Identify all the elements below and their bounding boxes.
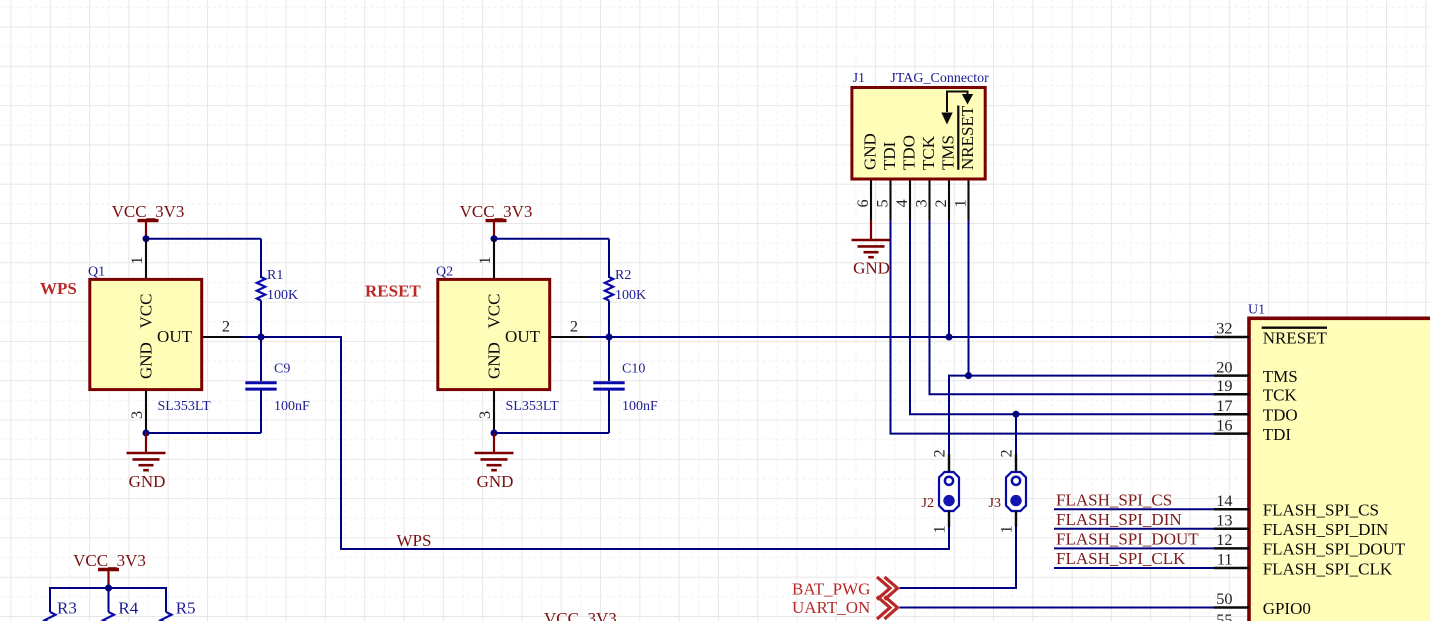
power flag VCC_3V3 (Q2 circuit) — [460, 202, 533, 238]
pin name NRESET inside U1 — [1262, 328, 1328, 348]
pin 20 of U1 (TMS) — [1214, 357, 1249, 376]
wire TMS net: J2 pin 2 up and right to U1 pin 20 — [949, 376, 1214, 460]
wire R2 bottom lead — [608, 301, 610, 338]
power flag VCC_3V3 (Q1 circuit) — [112, 202, 185, 238]
svg-text:C9: C9 — [274, 362, 290, 377]
wire BAT_PWG to J3 pin 1 — [900, 527, 1016, 588]
svg-text:FLASH_SPI_DIN: FLASH_SPI_DIN — [1056, 510, 1182, 529]
svg-text:GND: GND — [485, 342, 504, 379]
resistor R3 (top, cut off) — [45, 612, 56, 626]
wire R1 bottom lead — [260, 301, 262, 338]
svg-text:U1: U1 — [1248, 302, 1265, 317]
harness chevron BAT_PWG — [877, 577, 898, 600]
transistor Q2 body (hall sensor SL353LT) — [438, 279, 550, 389]
pin 2 (OUT) of Q2 — [551, 317, 590, 337]
pin 1 of J2 — [930, 511, 949, 534]
svg-text:VCC_3V3: VCC_3V3 — [460, 202, 533, 221]
wire FLASH_SPI_DOUT net — [1054, 547, 1214, 549]
svg-text:TDI: TDI — [1263, 425, 1292, 444]
svg-text:Q1: Q1 — [88, 265, 105, 280]
svg-text:FLASH_SPI_CS: FLASH_SPI_CS — [1263, 501, 1379, 520]
wire R4 top lead — [108, 588, 110, 612]
svg-text:4: 4 — [892, 199, 911, 207]
svg-text:BAT_PWG: BAT_PWG — [792, 580, 870, 599]
power flag VCC_3V3 (R3/R4/R5) — [73, 551, 146, 588]
svg-text:VCC: VCC — [485, 294, 504, 329]
svg-text:R3: R3 — [57, 598, 77, 617]
node junction J3 pin2 on TDO wire — [1013, 411, 1020, 418]
wire UART_ON to U1 pin 50 — [900, 607, 1214, 609]
pin 2 of J3 — [997, 449, 1016, 472]
wire FLASH_SPI_CS net — [1054, 508, 1214, 510]
pin 11 of U1 (FLASH_SPI_CLK) — [1214, 550, 1249, 569]
svg-text:GND: GND — [853, 258, 890, 277]
wire WPS net: Q1 OUT down and across to J2 pin 1 — [261, 337, 949, 549]
svg-text:TMS: TMS — [939, 135, 958, 170]
svg-text:OUT: OUT — [157, 327, 193, 346]
resistor R4 (top, cut off) — [103, 612, 114, 626]
svg-text:16: 16 — [1216, 415, 1232, 434]
pin 3 of J1 (TCK) — [912, 181, 931, 221]
capacitor C9 — [245, 337, 276, 433]
pin 5 of J1 (TDI) — [873, 181, 892, 221]
svg-text:100K: 100K — [615, 288, 646, 303]
svg-text:SL353LT: SL353LT — [158, 399, 212, 414]
svg-text:GND: GND — [861, 133, 880, 170]
pin 1 of Q2 — [475, 239, 494, 279]
svg-text:20: 20 — [1216, 357, 1232, 376]
svg-text:R5: R5 — [176, 598, 196, 617]
ground Q1 — [127, 433, 166, 470]
wire R1 top lead — [260, 239, 262, 278]
pin 3 of Q1 — [127, 391, 146, 434]
wire TCK: J1 pin 3 to U1 pin 19 — [930, 220, 1215, 394]
node OUT junction Q1 — [258, 334, 265, 341]
wire FLASH_SPI_DIN net — [1054, 528, 1214, 530]
harness chevron UART_ON — [877, 596, 898, 619]
jumper J2 body — [939, 472, 959, 511]
IC U1 body — [1249, 318, 1430, 626]
swap-indicator arrow bracket (TMS/NRESET) — [941, 92, 973, 125]
svg-text:OUT: OUT — [505, 327, 541, 346]
svg-text:R1: R1 — [267, 268, 283, 283]
svg-text:17: 17 — [1216, 396, 1232, 415]
svg-text:TCK: TCK — [919, 135, 938, 170]
svg-text:6: 6 — [853, 199, 872, 207]
svg-text:NRESET: NRESET — [958, 105, 977, 170]
svg-text:Q2: Q2 — [436, 265, 453, 280]
svg-text:TDO: TDO — [900, 135, 919, 170]
pin 50 of U1 (GPIO0) — [1214, 589, 1249, 608]
wire OUT of Q2 to R2 — [590, 336, 609, 338]
resistor R1 — [257, 277, 265, 301]
jumper J3 body — [1006, 472, 1026, 511]
wire OUT of Q1 to R1 — [242, 336, 261, 338]
wire R2 top lead — [608, 239, 610, 278]
svg-text:J3: J3 — [989, 496, 1001, 511]
pin 6 of J1 (GND) — [853, 181, 872, 221]
wire J3 pin2 up to TDO wire — [1015, 414, 1017, 454]
svg-text:JTAG_Connector: JTAG_Connector — [890, 71, 989, 86]
pin 14 of U1 (FLASH_SPI_CS) — [1214, 491, 1249, 510]
pin 2 of J2 — [930, 449, 949, 472]
svg-text:14: 14 — [1216, 491, 1232, 510]
svg-text:2: 2 — [930, 449, 949, 457]
node VCC junction Q1 — [143, 235, 150, 242]
pin 3 of Q2 — [475, 391, 494, 434]
wire FLASH_SPI_CLK net — [1054, 567, 1214, 569]
wire J1 NRESET pin down crossing to TMS net junction — [968, 220, 970, 376]
svg-text:RESET: RESET — [365, 282, 421, 301]
transistor Q1 body (hall sensor SL353LT) — [90, 279, 202, 389]
svg-text:55: 55 — [1216, 610, 1232, 621]
capacitor C10 — [593, 337, 624, 433]
svg-text:SL353LT: SL353LT — [506, 399, 560, 414]
svg-text:R2: R2 — [615, 268, 631, 283]
wire VCC rail to R1 — [146, 238, 261, 240]
svg-text:1: 1 — [930, 525, 949, 533]
ground Q2 — [475, 433, 514, 470]
svg-text:TDI: TDI — [880, 141, 899, 170]
svg-text:100nF: 100nF — [622, 399, 658, 414]
svg-text:FLASH_SPI_CLK: FLASH_SPI_CLK — [1263, 559, 1393, 578]
svg-text:FLASH_SPI_DOUT: FLASH_SPI_DOUT — [1056, 530, 1199, 549]
svg-text:1: 1 — [127, 256, 146, 264]
connector J1 body — [852, 88, 985, 180]
svg-text:R4: R4 — [118, 598, 138, 617]
node OUT junction Q2 — [606, 334, 613, 341]
ground J1 — [852, 220, 891, 257]
svg-text:J2: J2 — [922, 496, 934, 511]
svg-text:13: 13 — [1216, 511, 1232, 530]
svg-text:50: 50 — [1216, 589, 1232, 608]
svg-text:TCK: TCK — [1263, 386, 1298, 405]
svg-text:TDO: TDO — [1263, 406, 1298, 425]
resistor R5 (top, cut off) — [161, 612, 172, 626]
svg-text:100K: 100K — [267, 288, 298, 303]
svg-text:2: 2 — [931, 199, 950, 207]
svg-text:GND: GND — [137, 342, 156, 379]
svg-text:UART_ON: UART_ON — [792, 598, 870, 617]
svg-text:12: 12 — [1216, 530, 1232, 549]
node junction J1-TMS column on NRESET wire — [946, 334, 953, 341]
svg-text:VCC_3V3: VCC_3V3 — [112, 202, 185, 221]
svg-text:VCC_3V3: VCC_3V3 — [544, 609, 617, 621]
svg-text:GND: GND — [129, 472, 166, 491]
wire TDI: J1 pin 5 to U1 pin 16 — [891, 220, 1215, 434]
pin 2 of J1 (TMS) — [931, 181, 950, 221]
svg-text:FLASH_SPI_DIN: FLASH_SPI_DIN — [1263, 520, 1389, 539]
node VCC junction (divider) — [105, 585, 112, 592]
node GND junction Q2 — [491, 430, 498, 437]
wire GND rail Q1 to C9 — [146, 432, 261, 434]
overline for NRESET pin name in J1 — [957, 106, 959, 170]
svg-text:GND: GND — [477, 472, 514, 491]
svg-text:FLASH_SPI_CLK: FLASH_SPI_CLK — [1056, 549, 1186, 568]
wire NRESET net: Q2 OUT to U1 pin 32 — [590, 336, 1214, 338]
svg-text:19: 19 — [1216, 376, 1232, 395]
svg-text:J1: J1 — [853, 71, 865, 86]
svg-text:FLASH_SPI_CS: FLASH_SPI_CS — [1056, 491, 1172, 510]
pin 1 of J3 — [997, 511, 1016, 534]
svg-text:100nF: 100nF — [274, 399, 310, 414]
svg-text:TMS: TMS — [1263, 367, 1298, 386]
svg-text:1: 1 — [997, 525, 1016, 533]
node GND junction Q1 — [143, 430, 150, 437]
pin 32 of U1 (NRESET) — [1214, 319, 1249, 338]
svg-text:1: 1 — [475, 256, 494, 264]
wire J1 TMS pin down to NRESET net junction — [948, 220, 950, 337]
node junction J1-NRESET column on TMS wire — [965, 372, 972, 379]
wire VCC rail to R3/R4/R5 — [50, 588, 166, 612]
svg-text:1: 1 — [951, 199, 970, 207]
pin 12 of U1 (FLASH_SPI_DOUT) — [1214, 530, 1249, 549]
pin 1 of J1 (NRESET) — [951, 181, 970, 221]
pin 13 of U1 (FLASH_SPI_DIN) — [1214, 511, 1249, 530]
svg-text:VCC: VCC — [137, 294, 156, 329]
svg-text:WPS: WPS — [40, 279, 77, 298]
svg-text:GPIO0: GPIO0 — [1263, 599, 1311, 618]
pin 4 of J1 (TDO) — [892, 181, 911, 221]
svg-text:2: 2 — [570, 317, 578, 336]
svg-text:3: 3 — [127, 411, 146, 419]
svg-text:3: 3 — [912, 199, 931, 207]
wire VCC rail to R2 — [494, 238, 609, 240]
svg-text:VCC_3V3: VCC_3V3 — [73, 551, 146, 570]
wire TDO: J1 pin 4 to U1 pin 17 — [910, 220, 1214, 414]
svg-text:2: 2 — [222, 317, 230, 336]
svg-text:C10: C10 — [622, 362, 645, 377]
svg-text:NRESET: NRESET — [1263, 328, 1328, 347]
pin 2 (OUT) of Q1 — [203, 317, 242, 337]
pin 1 of Q1 — [127, 239, 146, 279]
pin 19 of U1 (TCK) — [1214, 376, 1249, 395]
svg-text:WPS: WPS — [397, 531, 432, 550]
svg-text:32: 32 — [1216, 319, 1232, 338]
svg-text:FLASH_SPI_DOUT: FLASH_SPI_DOUT — [1263, 540, 1406, 559]
svg-text:3: 3 — [475, 411, 494, 419]
svg-text:2: 2 — [997, 449, 1016, 457]
svg-text:5: 5 — [873, 199, 892, 207]
wire GND rail Q2 to C10 — [494, 432, 609, 434]
pin 17 of U1 (TDO) — [1214, 396, 1249, 415]
pin 16 of U1 (TDI) — [1214, 415, 1249, 434]
svg-text:11: 11 — [1217, 550, 1233, 569]
node VCC junction Q2 — [491, 235, 498, 242]
resistor R2 — [605, 277, 613, 301]
